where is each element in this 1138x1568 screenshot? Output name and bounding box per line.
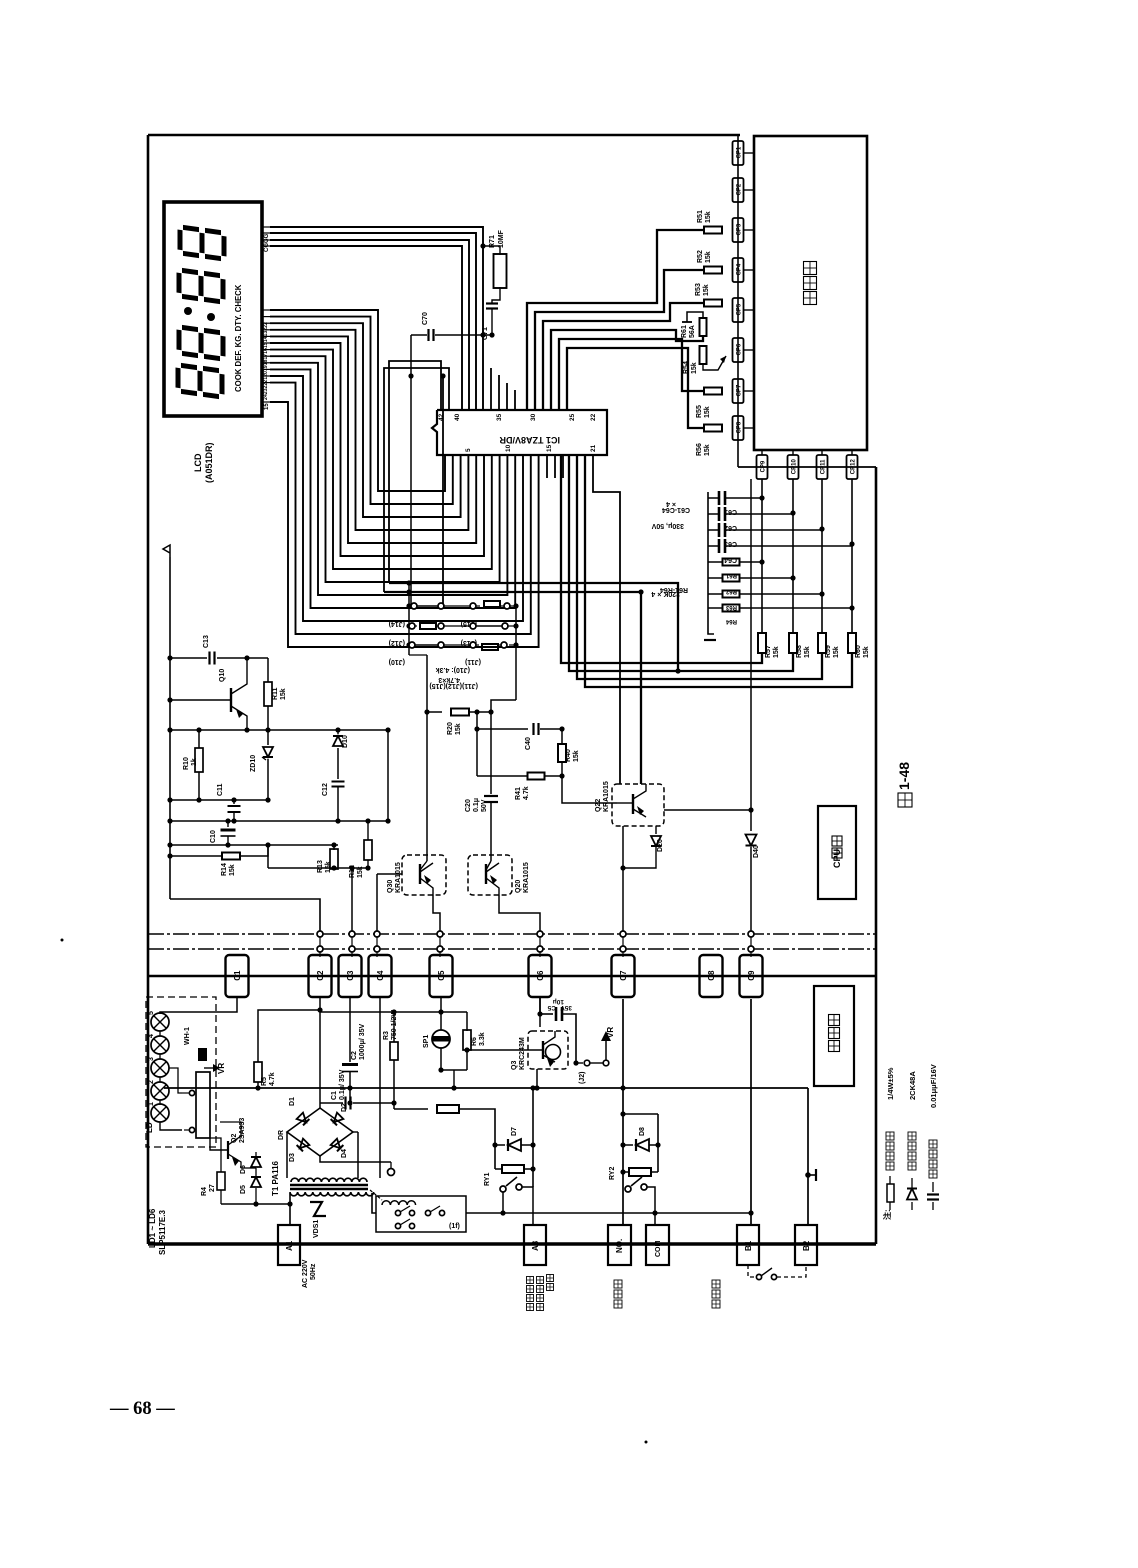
svg-text:R51: R51 <box>697 210 704 223</box>
svg-text:30: 30 <box>530 413 537 421</box>
svg-text:KRA1015: KRA1015 <box>395 862 402 893</box>
connector CP11 <box>821 450 823 455</box>
svg-text:750 1/2W: 750 1/2W <box>391 1010 398 1040</box>
svg-text:27: 27 <box>209 1184 216 1192</box>
resistor R71 10uF <box>494 254 507 288</box>
resistor R3 750 1/2W <box>393 1012 395 1042</box>
svg-text:D7: D7 <box>511 1127 518 1136</box>
svg-text:C6: C6 <box>536 970 545 981</box>
board boundary chain line 2 <box>148 948 876 950</box>
svg-text:CP3: CP3 <box>736 223 742 235</box>
svg-text:CP7: CP7 <box>736 384 742 396</box>
wire C2 to R5 branch <box>258 1010 320 1062</box>
svg-text:15k: 15k <box>229 864 236 876</box>
svg-text:D2: D2 <box>341 1103 348 1112</box>
wire bundle LCD lower pins to IC bottom pins <box>270 310 445 491</box>
resistor R40 15k <box>558 744 566 762</box>
resistor R53 15k <box>704 300 722 307</box>
svg-text:CP11: CP11 <box>820 459 826 474</box>
svg-text:0.01μμF/16V: 0.01μμF/16V <box>929 1064 938 1108</box>
svg-text:4.7k: 4.7k <box>523 786 530 800</box>
svg-text:R60: R60 <box>855 645 862 658</box>
wire lamp driver to primary node <box>221 1203 290 1205</box>
svg-text:CP4: CP4 <box>736 263 742 275</box>
wire key row R54/R61 to IC <box>551 330 703 410</box>
svg-text:4: 4 <box>148 1034 155 1038</box>
svg-text:15k: 15k <box>280 688 287 700</box>
wire bundle tap down to J14 <box>442 376 444 604</box>
diode D4 <box>331 1139 344 1152</box>
svg-text:CP8: CP8 <box>736 421 742 433</box>
svg-text:56A: 56A <box>689 325 696 338</box>
diode D1 <box>297 1113 310 1126</box>
connector C4 <box>369 955 392 997</box>
svg-text:RY1: RY1 <box>484 1173 491 1186</box>
wire CP12 column <box>851 479 853 634</box>
label microwave oven <box>614 1280 622 1288</box>
labels turntable motor fan motor lamp <box>527 1277 534 1284</box>
resistor R61 of R61-R64 <box>723 559 740 566</box>
capacitor C13 <box>170 657 207 659</box>
zener ZD10 <box>267 730 269 745</box>
svg-text:25: 25 <box>569 413 576 421</box>
svg-text:4.7k×3: 4.7k×3 <box>438 676 460 683</box>
svg-text:CP5: CP5 <box>736 303 742 315</box>
connector C8 <box>700 955 723 997</box>
svg-text:1/4W±5%: 1/4W±5% <box>886 1067 895 1100</box>
svg-text:R13: R13 <box>317 860 324 873</box>
svg-text:42: 42 <box>438 413 445 421</box>
connector CP6 <box>733 338 744 362</box>
connector C7 <box>612 955 635 997</box>
resistor R56 15k <box>704 425 722 432</box>
connector C2 <box>309 955 332 997</box>
capacitor C63 <box>718 523 721 537</box>
bus y845 <box>170 844 338 846</box>
svg-text:LCD: LCD <box>193 453 203 472</box>
resistor R12 15k <box>367 821 369 840</box>
capacitor C12 <box>337 748 339 779</box>
svg-text:C40: C40 <box>525 737 532 750</box>
svg-text:R10: R10 <box>183 757 190 770</box>
diode D10 <box>337 730 339 734</box>
svg-text:Q10: Q10 <box>219 669 226 682</box>
resistor R62 <box>723 575 740 582</box>
resistor R10 1k <box>198 730 200 748</box>
svg-text:(J10): 4.3k: (J10): 4.3k <box>436 666 470 673</box>
svg-text:Q22: Q22 <box>595 799 602 812</box>
stray mark <box>61 939 64 942</box>
wire IC pin 41 loop to J area <box>384 368 449 592</box>
svg-text:RY2: RY2 <box>609 1167 616 1180</box>
jumper block left bus <box>408 583 410 655</box>
wire key row R51 to IC <box>527 230 704 410</box>
capacitor C61 <box>718 491 721 505</box>
wire C5 column down <box>440 997 442 1012</box>
page frame <box>148 134 740 137</box>
svg-text:2SA933: 2SA933 <box>239 1118 246 1143</box>
IC spare pin stubs bottom <box>546 455 548 478</box>
LCD top pin stubs <box>262 226 270 228</box>
svg-text:3: 3 <box>148 1057 155 1061</box>
buzzer SP1 <box>440 1012 442 1030</box>
svg-text:D1: D1 <box>289 1097 296 1106</box>
svg-text:D8: D8 <box>639 1127 646 1136</box>
svg-text:B2: B2 <box>802 1240 811 1251</box>
svg-text:330μ, 50V: 330μ, 50V <box>651 522 684 529</box>
svg-text:10MF: 10MF <box>498 229 505 248</box>
svg-text:1000μ/ 35V: 1000μ/ 35V <box>359 1023 366 1060</box>
left bus of C61/R61 group with ground stub <box>707 492 709 628</box>
svg-text:C70: C70 <box>422 312 429 325</box>
wire key row R53 to IC <box>543 303 704 410</box>
bus y821 <box>170 820 390 822</box>
jumper J10 <box>409 642 415 648</box>
svg-text:1: 1 <box>148 1102 155 1106</box>
svg-text:NO.: NO. <box>615 1239 624 1253</box>
svg-text:15: 15 <box>546 444 553 452</box>
LCD digit 8 (top) <box>180 227 224 259</box>
transformer primary winding <box>290 1192 374 1196</box>
svg-text:C10: C10 <box>210 830 217 843</box>
board boundary chain line 1 <box>148 933 876 935</box>
wire C3 column down with C2 electrolytic <box>349 997 351 1062</box>
capacitor C40 <box>476 712 478 776</box>
indicator lamps LD1-LD5 <box>151 1013 169 1031</box>
wire R57 to IC pin <box>561 455 762 663</box>
svg-text:R57: R57 <box>765 645 772 658</box>
transistor Q22 KRA1015 <box>612 784 664 826</box>
resistor R57 15k <box>758 633 766 653</box>
diode D2 <box>331 1113 344 1126</box>
wire primary right to switch block <box>372 1193 376 1213</box>
LCD lower pin stubs <box>262 309 270 311</box>
capacitor C62 <box>718 507 721 521</box>
svg-text:R6: R6 <box>471 1037 478 1046</box>
diode D8 loop <box>623 1113 658 1115</box>
wire IC pin 42 loop to J area <box>389 361 441 583</box>
resistor R11 15k <box>267 658 269 682</box>
wire switch block to relay line <box>466 1212 751 1214</box>
LCD digit 8 (bottom) <box>178 365 222 397</box>
wire R60 to IC pin <box>585 455 852 687</box>
svg-text:15k: 15k <box>705 251 712 263</box>
svg-text:R4: R4 <box>201 1187 208 1196</box>
wire C6 column down to Q3 <box>539 997 541 1027</box>
resistor R58 15k <box>789 633 797 653</box>
heater switch block (1f) <box>376 1196 466 1232</box>
svg-text:4.7k: 4.7k <box>269 1072 276 1086</box>
svg-text:KRA1015: KRA1015 <box>523 862 530 893</box>
terminal COM <box>646 1225 669 1265</box>
bus y800 <box>170 799 268 801</box>
svg-text:D10: D10 <box>342 735 349 748</box>
svg-text:10μ: 10μ <box>553 998 564 1005</box>
svg-text:21: 21 <box>590 444 597 452</box>
svg-text:A3: A3 <box>531 1240 540 1251</box>
svg-text:KRA1015: KRA1015 <box>603 781 610 812</box>
svg-text:COOK DEF. KG. DTY. CHECK: COOK DEF. KG. DTY. CHECK <box>234 284 243 392</box>
chain line crossing terminals <box>319 931 321 952</box>
terminal A1 AC input <box>278 1225 300 1265</box>
svg-text:WH-1: WH-1 <box>184 1027 191 1045</box>
svg-text:35V: 35V <box>560 1004 572 1011</box>
wire CP10 column <box>792 479 794 634</box>
door switch <box>712 1280 720 1288</box>
capacitor C64 <box>718 539 721 553</box>
jumper J11 <box>470 642 476 648</box>
svg-text:15k: 15k <box>704 406 711 418</box>
wire C4 column down to transformer secondary <box>379 997 381 1178</box>
transformer core <box>290 1184 368 1187</box>
bus y868 <box>268 867 368 869</box>
svg-text:15k: 15k <box>325 861 332 873</box>
transistor Q20 KRA1015 <box>468 855 512 895</box>
lamp block dashed enclosure <box>146 997 216 1147</box>
wire CP9 column <box>761 479 763 634</box>
resistor R60 15k <box>848 633 856 653</box>
bridge rectifier diamond <box>287 1108 353 1156</box>
svg-text:IC1 TZA8V/DR: IC1 TZA8V/DR <box>499 435 560 445</box>
wire Q3 emitter to bus <box>536 1069 538 1088</box>
svg-text:C9: C9 <box>747 970 756 981</box>
svg-text:(1f): (1f) <box>449 1223 460 1230</box>
terminal stub top left <box>163 545 170 557</box>
wire primary left to A1 <box>289 1193 291 1225</box>
capacitor C70 <box>411 334 427 336</box>
resistor R61 56A vertical <box>700 318 707 336</box>
jumper J14 <box>411 603 417 609</box>
connector C9 <box>740 955 763 997</box>
svg-text:R55: R55 <box>696 405 703 418</box>
wire y1012 bus <box>320 1011 467 1013</box>
wire to C4 column <box>377 873 402 875</box>
svg-text:DR: DR <box>278 1130 285 1140</box>
capacitor C1 0.1u/35V <box>320 1102 343 1104</box>
transistor Q2 2SA933 <box>227 1141 229 1159</box>
svg-text:22: 22 <box>590 413 597 421</box>
svg-text:C1: C1 <box>331 1091 338 1100</box>
LCD digit 8 <box>179 327 223 359</box>
wire B2 chassis ground <box>807 1088 809 1225</box>
wire R54 arrow to CP6 <box>703 356 726 370</box>
svg-text:C2: C2 <box>351 1051 358 1060</box>
svg-text:15k: 15k <box>703 284 710 296</box>
resistor R63 <box>723 591 740 598</box>
wire key row R52 to IC <box>535 270 704 410</box>
wire R41 node to Q22 base <box>562 776 617 803</box>
main unit block <box>814 986 854 1086</box>
svg-text:5: 5 <box>465 448 472 452</box>
svg-text:R41: R41 <box>515 787 522 800</box>
svg-text:COM: COM <box>655 1241 662 1258</box>
connector CP1 <box>733 141 744 165</box>
connector CP10 <box>792 450 794 455</box>
svg-text:CP10: CP10 <box>791 459 797 475</box>
svg-text:R5: R5 <box>261 1077 268 1086</box>
LCD display module (A051DR) <box>164 202 262 416</box>
wire C7 column down to RY2 <box>622 999 624 1225</box>
svg-text:A1: A1 <box>285 1240 294 1251</box>
resistor R59 15k <box>818 633 826 653</box>
switch contacts row1 <box>395 1210 400 1215</box>
svg-text:C4: C4 <box>376 970 385 981</box>
svg-text:15: 15 <box>264 403 270 410</box>
connector chain CP1-CP8 vertical bus <box>737 135 739 467</box>
left rail <box>169 557 171 899</box>
svg-text:D40: D40 <box>753 845 760 858</box>
svg-text:242322212019181716151413222: 242322212019181716151413222 <box>263 322 269 400</box>
resistor R4 27 <box>220 1160 222 1172</box>
svg-text:CP1: CP1 <box>736 146 742 158</box>
capacitor C11 <box>233 800 235 804</box>
svg-text:1k: 1k <box>191 758 198 766</box>
bus y730 <box>170 729 390 731</box>
svg-text:VR: VR <box>217 1063 226 1074</box>
svg-text:5: 5 <box>148 1011 155 1015</box>
connector CP4 <box>733 258 744 282</box>
svg-text:KRC243M: KRC243M <box>519 1037 526 1070</box>
wire CP11 column <box>821 479 823 634</box>
LCD colon <box>184 307 192 315</box>
svg-text:SLP5117E.3: SLP5117E.3 <box>158 1210 167 1255</box>
svg-text:15k: 15k <box>455 723 462 735</box>
svg-text:B1: B1 <box>744 1240 753 1251</box>
svg-text:SP1: SP1 <box>423 1035 430 1048</box>
jumper J15 <box>470 603 476 609</box>
svg-text:R56: R56 <box>696 443 703 456</box>
svg-text:C20: C20 <box>465 799 472 812</box>
figure label 1-48 <box>898 793 912 807</box>
connector CP8 <box>733 416 744 440</box>
transistor Q10 <box>230 688 232 712</box>
connector CP9 <box>761 450 763 455</box>
diodes D6 D5 <box>241 1167 256 1169</box>
svg-text:15k: 15k <box>773 646 780 658</box>
svg-text:(J14): (J14) <box>389 620 405 627</box>
svg-text:Q30: Q30 <box>387 880 394 893</box>
capacitor C10 polarized <box>227 821 229 827</box>
wire D7 loop right side to A3 <box>532 1088 534 1187</box>
resistor R51 15k <box>704 227 722 234</box>
wire bundle LCD top pins to IC <box>270 227 483 410</box>
connector CP5 <box>733 298 744 322</box>
connector CP2 <box>733 178 744 202</box>
svg-text:C12: C12 <box>322 783 329 796</box>
svg-text:50V: 50V <box>481 799 488 812</box>
svg-text:R14: R14 <box>221 863 228 876</box>
svg-text:1-48: 1-48 <box>896 762 912 790</box>
resistor R5 4.7k <box>254 1062 262 1082</box>
potentiometer VR body <box>196 1072 210 1138</box>
svg-text:R3: R3 <box>383 1031 390 1040</box>
svg-text:Q3: Q3 <box>511 1061 518 1070</box>
wire C2 column down <box>319 997 321 1108</box>
pot terminals <box>189 1090 194 1095</box>
svg-text:R58: R58 <box>796 645 803 658</box>
svg-text:(A051DR): (A051DR) <box>204 442 214 483</box>
IC U1 IC1 TZA8V/DR body <box>432 410 607 455</box>
resistor R6 3.3k <box>466 1012 468 1031</box>
wire C70 drop to jumper block <box>410 335 412 606</box>
svg-text:220K × 4: 220K × 4 <box>651 590 680 597</box>
svg-text:CP2: CP2 <box>736 183 742 195</box>
svg-text:2CK48A: 2CK48A <box>908 1071 917 1100</box>
svg-text:C71: C71 <box>482 327 489 340</box>
svg-text:R61: R61 <box>681 325 688 338</box>
svg-text:LD1 ~ LD6: LD1 ~ LD6 <box>148 1208 157 1248</box>
svg-text:LD: LD <box>145 1122 154 1133</box>
wire SP1/R6 bottoms <box>441 1069 467 1071</box>
resistor R14 15k horizontal <box>170 855 222 857</box>
resistor R41 4.7k <box>477 775 527 777</box>
svg-text:(J11): (J11) <box>465 658 481 665</box>
thermistor hook symbol <box>687 312 703 322</box>
svg-text:CP9: CP9 <box>760 460 766 472</box>
jumper J2 and VR arrow <box>573 1060 578 1065</box>
jumper mid links <box>443 605 471 607</box>
jumper J13 <box>470 623 476 629</box>
svg-text:VDS1: VDS1 <box>313 1220 320 1238</box>
CPU unit block <box>818 806 856 899</box>
transistor Q3 KRC243M <box>528 1031 568 1069</box>
svg-text:CGGG: CGGG <box>264 233 270 252</box>
wire Q30 emitter to C5 column <box>433 895 440 931</box>
svg-text:R59: R59 <box>825 645 832 658</box>
svg-text:10: 10 <box>505 444 512 452</box>
main power rail <box>148 975 876 977</box>
svg-text:R53: R53 <box>695 283 702 296</box>
legend diode default <box>911 1202 913 1210</box>
svg-text:D6: D6 <box>240 1165 247 1174</box>
svg-text:C2: C2 <box>316 970 325 981</box>
svg-text:15k: 15k <box>691 362 698 374</box>
diode D40 <box>750 479 752 831</box>
key unit block (Jian Dan Yuan) <box>754 136 867 450</box>
wire x388 link <box>387 730 389 821</box>
svg-text:T1 PA116: T1 PA116 <box>271 1160 280 1196</box>
connector C6 <box>529 955 552 997</box>
svg-text:15k: 15k <box>804 646 811 658</box>
svg-text:C5: C5 <box>437 970 446 981</box>
resistor R13 15k <box>333 845 335 850</box>
svg-text:R52: R52 <box>697 250 704 263</box>
wire key row R56 to IC <box>567 348 704 428</box>
jumper block right bus <box>515 606 517 700</box>
svg-text:Q2: Q2 <box>231 1134 238 1143</box>
svg-text:15k: 15k <box>704 444 711 456</box>
svg-text:D5: D5 <box>240 1185 247 1194</box>
svg-text:C13: C13 <box>203 635 210 648</box>
svg-text:15k: 15k <box>573 750 580 762</box>
connector CP3 <box>733 218 744 242</box>
varistor VDS1 <box>310 1202 326 1216</box>
wire Q22 emitter down to C7 column <box>622 826 624 931</box>
wire R20 to Q30 base <box>426 712 428 861</box>
terminal NO. <box>608 1225 631 1265</box>
svg-text:C7: C7 <box>619 970 628 981</box>
wire R58 to IC pin <box>569 455 793 671</box>
legend capacitor default <box>932 1202 934 1210</box>
resistor R54 15k <box>700 346 707 364</box>
svg-text:C3: C3 <box>346 970 355 981</box>
svg-text:(J10): (J10) <box>389 658 405 665</box>
wire bridge left to transformer <box>286 1132 288 1178</box>
svg-text:50Hz: 50Hz <box>310 1263 317 1280</box>
terminal B1 <box>737 1225 759 1265</box>
wire J bus lines to Q22 area <box>389 583 678 671</box>
connector CP12 <box>851 450 853 455</box>
